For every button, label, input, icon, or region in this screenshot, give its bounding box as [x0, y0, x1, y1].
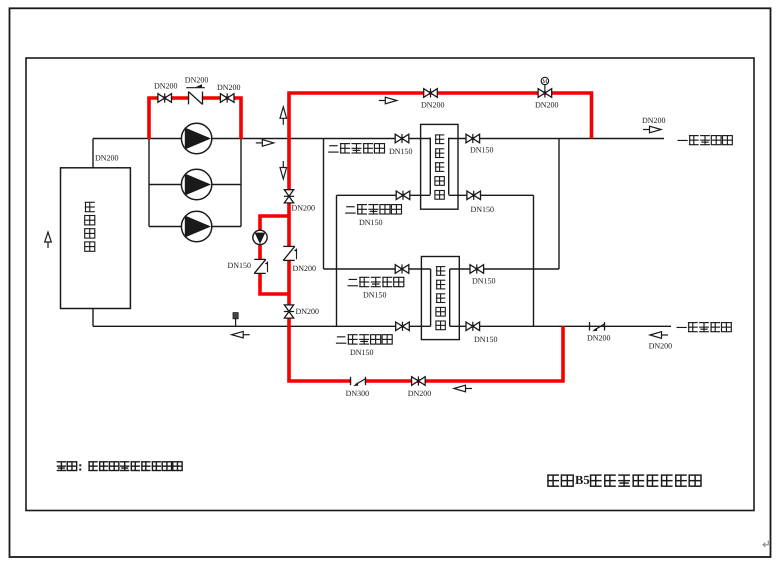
svg-text:DN150: DN150 [472, 276, 496, 285]
svg-text:DN200: DN200 [154, 81, 178, 90]
svg-text:DN200: DN200 [421, 101, 445, 110]
svg-text:DN200: DN200 [217, 83, 241, 92]
svg-text:DN200: DN200 [535, 101, 559, 110]
svg-text:DN200: DN200 [296, 307, 320, 316]
svg-text:DN200: DN200 [292, 204, 316, 213]
svg-text:DN200: DN200 [587, 334, 611, 343]
svg-text:DN150: DN150 [474, 335, 498, 344]
svg-text:DN200: DN200 [649, 342, 673, 351]
svg-text:DN150: DN150 [350, 348, 374, 357]
svg-text:DN150: DN150 [359, 218, 383, 227]
svg-text:DN200: DN200 [293, 264, 317, 273]
svg-text:DN200: DN200 [642, 116, 666, 125]
svg-text:DN150: DN150 [363, 290, 387, 299]
svg-text:B5: B5 [575, 473, 590, 487]
svg-text:DN150: DN150 [470, 145, 494, 154]
svg-text:DN200: DN200 [185, 75, 209, 84]
svg-text:DN150: DN150 [228, 261, 252, 270]
svg-text:DN150: DN150 [471, 205, 495, 214]
svg-text:DN300: DN300 [346, 389, 370, 398]
svg-text:DN200: DN200 [95, 154, 119, 163]
svg-text:DN200: DN200 [408, 389, 432, 398]
svg-text:M: M [542, 79, 547, 85]
svg-text:DN150: DN150 [389, 147, 413, 156]
